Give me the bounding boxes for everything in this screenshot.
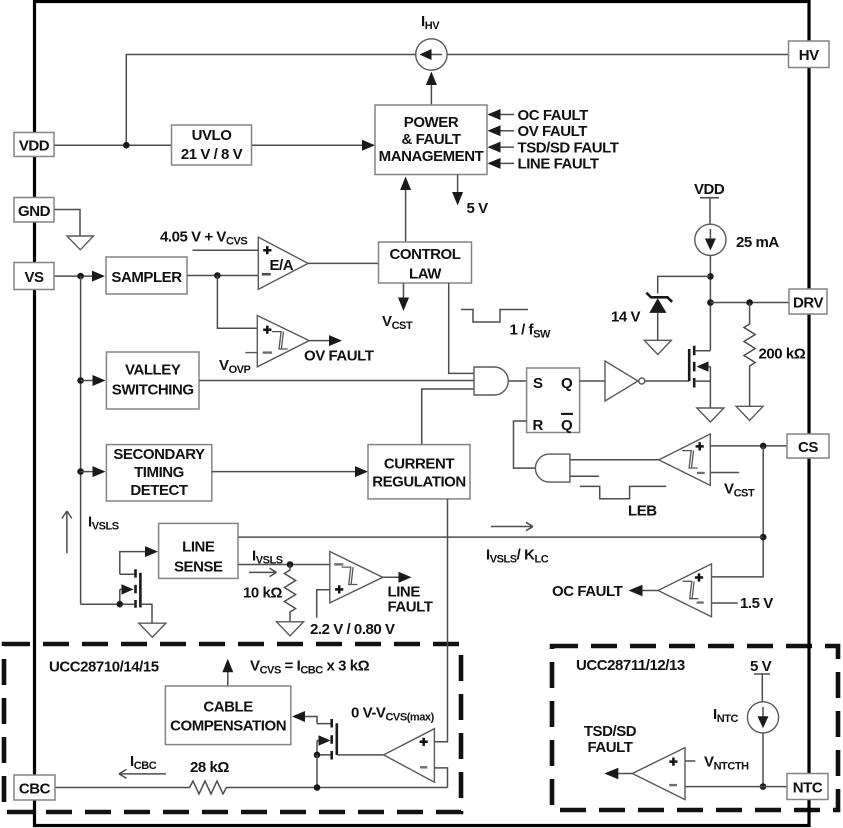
svg-text:2.2 V / 0.80 V: 2.2 V / 0.80 V xyxy=(310,621,395,638)
svg-text:CONTROL: CONTROL xyxy=(389,246,460,263)
svg-text:UCC28711/12/13: UCC28711/12/13 xyxy=(576,657,685,674)
svg-text:& FAULT: & FAULT xyxy=(401,131,460,148)
svg-text:SECONDARY: SECONDARY xyxy=(113,446,205,463)
svg-text:VDD: VDD xyxy=(19,138,50,155)
svg-text:POWER: POWER xyxy=(404,114,459,131)
svg-text:OV FAULT: OV FAULT xyxy=(304,348,374,365)
svg-text:OV FAULT: OV FAULT xyxy=(518,123,588,140)
svg-text:TSD/SD FAULT: TSD/SD FAULT xyxy=(518,139,619,156)
svg-text:28 kΩ: 28 kΩ xyxy=(190,759,229,776)
svg-text:E/A: E/A xyxy=(270,257,294,274)
svg-text:HV: HV xyxy=(799,47,819,64)
svg-text:DETECT: DETECT xyxy=(130,482,188,499)
svg-text:10 kΩ: 10 kΩ xyxy=(243,585,282,602)
svg-text:TIMING: TIMING xyxy=(134,464,184,481)
svg-text:1.5 V: 1.5 V xyxy=(740,595,773,612)
svg-text:MANAGEMENT: MANAGEMENT xyxy=(379,148,484,165)
svg-text:LINE FAULT: LINE FAULT xyxy=(518,156,599,173)
svg-text:25 mA: 25 mA xyxy=(736,234,779,251)
svg-text:DRV: DRV xyxy=(793,295,823,312)
svg-text:LEB: LEB xyxy=(628,503,657,520)
svg-text:UVLO: UVLO xyxy=(192,127,233,144)
svg-text:OC FAULT: OC FAULT xyxy=(552,583,623,600)
svg-text:LINE: LINE xyxy=(182,539,215,556)
svg-text:SAMPLER: SAMPLER xyxy=(111,269,182,286)
svg-text:5 V: 5 V xyxy=(467,200,489,217)
svg-text:Q: Q xyxy=(561,375,573,392)
svg-text:SENSE: SENSE xyxy=(174,559,223,576)
svg-text:SWITCHING: SWITCHING xyxy=(112,382,194,399)
svg-text:5 V: 5 V xyxy=(750,658,772,675)
svg-text:CURRENT: CURRENT xyxy=(384,456,454,473)
svg-text:R: R xyxy=(533,417,544,434)
svg-text:COMPENSATION: COMPENSATION xyxy=(170,718,286,735)
svg-text:OC FAULT: OC FAULT xyxy=(518,107,589,124)
svg-text:CBC: CBC xyxy=(19,781,51,798)
svg-text:CABLE: CABLE xyxy=(203,699,253,716)
svg-text:S: S xyxy=(533,375,543,392)
svg-text:VALLEY: VALLEY xyxy=(125,362,181,379)
svg-text:14 V: 14 V xyxy=(611,309,641,326)
svg-text:REGULATION: REGULATION xyxy=(372,474,466,491)
svg-text:VS: VS xyxy=(24,269,44,286)
svg-text:NTC: NTC xyxy=(793,780,823,797)
svg-text:Q: Q xyxy=(561,417,573,434)
svg-text:FAULT: FAULT xyxy=(388,599,433,616)
svg-text:LAW: LAW xyxy=(409,266,442,283)
svg-text:VDD: VDD xyxy=(694,181,725,198)
svg-text:GND: GND xyxy=(18,203,51,220)
svg-text:TSD/SD: TSD/SD xyxy=(584,723,637,740)
svg-text:200 kΩ: 200 kΩ xyxy=(759,346,806,363)
svg-text:FAULT: FAULT xyxy=(588,739,633,756)
svg-text:UCC28710/14/15: UCC28710/14/15 xyxy=(49,659,159,676)
svg-text:21 V / 8 V: 21 V / 8 V xyxy=(181,146,243,163)
svg-text:CS: CS xyxy=(798,439,818,456)
